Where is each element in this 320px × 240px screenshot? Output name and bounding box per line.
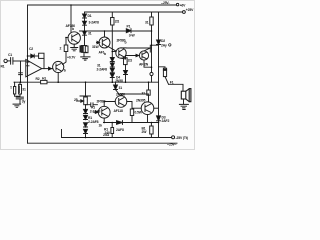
- diode D6 rail: [157, 40, 161, 45]
- wire Q3 base: [97, 42, 100, 44]
- wire Q4 emitter: [121, 57, 126, 60]
- capacitor near QA: [86, 103, 98, 107]
- op-amp U1: [26, 60, 42, 77]
- svg-text:3-2AY8: 3-2AY8: [89, 21, 100, 25]
- transistor Q6: [141, 102, 154, 115]
- diode below bus: [114, 85, 118, 90]
- svg-text:31: 31: [88, 32, 92, 36]
- wire right output rail: [158, 12, 160, 138]
- resistor R4: [64, 45, 68, 52]
- resistor R13: [130, 109, 133, 116]
- terminal -25V: [172, 136, 175, 139]
- wire amp out: [42, 68, 53, 70]
- wire Q8 to Q9: [104, 102, 115, 107]
- junction dots: [20, 4, 160, 138]
- svg-text:2F580: 2F580: [116, 92, 125, 96]
- svg-text:3y: 3y: [22, 100, 26, 104]
- capacitor elco left: [19, 82, 21, 96]
- svg-text:25: 25: [74, 98, 78, 102]
- diode chain x112: [110, 58, 114, 62]
- terminal rail2: [183, 11, 186, 14]
- svg-text:2Ay: 2Ay: [161, 44, 167, 48]
- resistor R14: [111, 128, 114, 134]
- svg-text:b: b: [64, 69, 66, 73]
- transistor Q5: [139, 51, 148, 60]
- svg-text:b: b: [125, 41, 127, 45]
- wire feedback down: [43, 58, 45, 68]
- wire to speaker: [169, 84, 184, 91]
- svg-text:2-2AF8: 2-2AF8: [88, 120, 99, 124]
- wire Q1 collector chain: [63, 38, 67, 65]
- wire Q2 emitter: [73, 44, 75, 47]
- diode D7 rail: [157, 116, 161, 121]
- svg-text:2AF2: 2AF2: [162, 119, 170, 123]
- wire lower emitter line: [104, 122, 159, 124]
- ground bias: [81, 52, 90, 60]
- transistor Q1: [53, 61, 64, 72]
- resistor R15: [150, 126, 153, 134]
- svg-text:D2: D2: [161, 39, 165, 43]
- svg-text:F1: F1: [170, 81, 174, 85]
- wire Q4 collector: [121, 47, 152, 49]
- wire Q9 base resistor: [127, 102, 141, 109]
- wire branch x151: [151, 12, 153, 82]
- svg-text:2: 2: [60, 47, 62, 51]
- wire second top rail: [85, 11, 183, 13]
- resistor R9: [124, 58, 128, 65]
- svg-text:31W: 31W: [92, 45, 99, 49]
- trimmer P1: [80, 82, 91, 96]
- wire QA emitter: [103, 118, 105, 122]
- wire: [125, 65, 127, 71]
- wire input to amp: [13, 60, 26, 62]
- diode feedback: [31, 54, 34, 58]
- wire Q4 base tap: [112, 51, 116, 53]
- svg-text:--25V--: --25V--: [167, 143, 176, 147]
- svg-text:1k: 1k: [99, 123, 103, 127]
- svg-text:R1: R1: [1, 65, 5, 69]
- svg-text:31: 31: [22, 88, 26, 92]
- wire Q6 emitter: [147, 115, 149, 123]
- svg-text:31: 31: [145, 21, 149, 25]
- wire left rail: [27, 5, 29, 143]
- wire Q9 collector: [121, 94, 149, 96]
- resistor R10 on rail2 drop: [150, 17, 153, 25]
- svg-text:2N58: 2N58: [115, 79, 123, 83]
- wire: [34, 55, 38, 57]
- terminal input: [4, 59, 7, 62]
- transistor Q8 (lower driver): [98, 106, 110, 118]
- wire input: [7, 60, 10, 62]
- capacitor C1: [11, 58, 13, 65]
- fuse F1: [159, 67, 166, 68]
- svg-text:-25V (Tt): -25V (Tt): [176, 136, 188, 140]
- svg-text:2AF8: 2AF8: [116, 128, 124, 132]
- diode on W8: [117, 121, 123, 125]
- svg-text:D1: D1: [88, 14, 92, 18]
- svg-text:--25V-: --25V-: [161, 1, 169, 5]
- ground speaker: [179, 99, 188, 110]
- svg-text:+0.7V: +0.7V: [67, 56, 76, 60]
- svg-text:P1: P1: [127, 25, 131, 29]
- wire Q1 emitter: [57, 73, 59, 83]
- svg-text:AF 2N: AF 2N: [139, 63, 149, 67]
- wire Q5 collector: [144, 45, 159, 52]
- svg-text:R2: R2: [36, 77, 40, 81]
- wire Q5 emitter: [144, 60, 152, 67]
- resistor feedback bus: [41, 80, 47, 83]
- terminal test point: [150, 72, 153, 75]
- resistor feedback: [39, 53, 44, 58]
- terminal +25 top: [176, 3, 178, 5]
- resistor bias: [85, 46, 88, 53]
- transistor Q4: [116, 48, 126, 58]
- diode D5: [124, 71, 128, 75]
- speaker LS1: [181, 89, 191, 102]
- diode mid: [126, 29, 131, 33]
- svg-text:C1: C1: [8, 53, 12, 57]
- wire top +25V rail: [28, 4, 176, 6]
- wire bottom 0V rail: [28, 142, 178, 144]
- wire Q8 base: [94, 111, 98, 113]
- diode D2: [83, 21, 87, 25]
- svg-text:H1: H1: [42, 76, 46, 80]
- capacitor series: [15, 96, 24, 104]
- svg-text:C2: C2: [29, 47, 33, 51]
- transistor Q2: [68, 32, 80, 44]
- svg-text:2Ω: 2Ω: [128, 58, 133, 62]
- wire Q5 base: [126, 56, 140, 60]
- svg-text:2-2AF8: 2-2AF8: [90, 110, 101, 114]
- wire Q2 collector: [70, 5, 72, 33]
- ground Q2: [71, 48, 78, 51]
- capacitor bias: [82, 45, 87, 47]
- wire input drop: [19, 61, 29, 82]
- svg-text:240: 240: [105, 131, 110, 135]
- wire feedback tap: [28, 55, 31, 57]
- transistor Q9: [115, 96, 127, 108]
- wire feedback bus: [14, 81, 159, 83]
- svg-text:+25V: +25V: [186, 8, 194, 12]
- svg-text:2N305: 2N305: [136, 99, 146, 103]
- svg-text:b: b: [104, 52, 106, 56]
- svg-text:2F580: 2F580: [97, 100, 106, 104]
- svg-text:+6V: +6V: [180, 3, 187, 7]
- arrowhead: [49, 67, 52, 70]
- wire -25V rail: [62, 130, 172, 138]
- resistor to ground left: [14, 82, 16, 96]
- svg-text:31: 31: [142, 92, 146, 96]
- resistor R6 on rail2: [111, 12, 113, 82]
- svg-text:3-W: 3-W: [129, 34, 136, 38]
- resistor R12: [147, 90, 150, 95]
- svg-text:b: b: [72, 27, 74, 31]
- wire Q3 collector: [104, 31, 106, 37]
- diode chain lower D8: [85, 105, 87, 110]
- svg-text:0.5W: 0.5W: [135, 111, 143, 115]
- wire Q3 to Q4: [108, 47, 116, 52]
- transistor Q3: [99, 37, 110, 48]
- wire: [125, 75, 127, 83]
- svg-text:AF118: AF118: [114, 109, 124, 113]
- svg-text:31: 31: [119, 86, 123, 90]
- wire Q2 base: [66, 37, 68, 39]
- wire mid bias line: [80, 30, 152, 32]
- ground: [13, 104, 21, 107]
- svg-text:2-2AF8: 2-2AF8: [97, 68, 108, 72]
- wire Q6 collector: [154, 107, 159, 109]
- svg-text:2Ω: 2Ω: [115, 20, 120, 24]
- diode D3: [83, 31, 87, 35]
- diode chain D1: [84, 12, 86, 46]
